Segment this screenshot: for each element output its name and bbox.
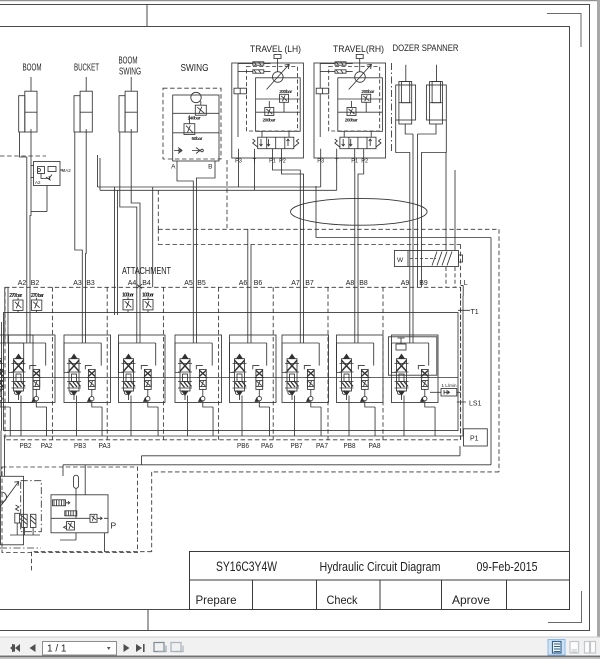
valve section group template (origin = A port x) bbox=[0, 287, 33, 436]
pressure reducer bbox=[90, 514, 102, 522]
svg-text:LS1: LS1 bbox=[469, 401, 482, 408]
svg-text:TRAVEL (LH): TRAVEL (LH) bbox=[250, 44, 301, 55]
compensator section 6 bbox=[253, 366, 270, 436]
pilot bus travel T bbox=[100, 158, 337, 315]
attachment bank labels bbox=[9, 265, 481, 531]
svg-text:BUCKET: BUCKET bbox=[74, 63, 99, 74]
compensator section 2 bbox=[30, 366, 47, 436]
svg-text:P1: P1 bbox=[351, 159, 358, 165]
L port line bbox=[462, 296, 464, 436]
bank left wires to pump bbox=[1, 431, 5, 477]
travel inner valve box bbox=[256, 78, 301, 132]
svg-text:140bar: 140bar bbox=[188, 116, 201, 122]
valve section A3/B3 bbox=[64, 287, 111, 436]
snapshot icon bbox=[154, 643, 166, 652]
compensator section 9 bbox=[418, 366, 435, 436]
page number box bbox=[43, 642, 117, 656]
dozer boundary dash-dot bbox=[391, 63, 393, 152]
pump body box bbox=[1, 476, 24, 545]
svg-text:200bar: 200bar bbox=[279, 89, 292, 95]
valve section A2/B2 bbox=[9, 287, 56, 436]
tank return loop solid bbox=[142, 186, 492, 465]
wire boom A bbox=[20, 132, 27, 287]
svg-text:B9: B9 bbox=[419, 278, 428, 287]
svg-text:L: L bbox=[464, 280, 468, 287]
svg-text:A4: A4 bbox=[128, 278, 137, 287]
pilot relief valve bbox=[64, 522, 75, 531]
compensator section 8 bbox=[358, 366, 375, 436]
bank second bottom line bbox=[4, 435, 464, 437]
nav next icon bbox=[124, 644, 130, 652]
wire bucket B bbox=[85, 129, 88, 287]
travel relief 200bar lower bbox=[265, 108, 274, 116]
svg-text:P2: P2 bbox=[279, 159, 286, 165]
nav first-page icon bbox=[10, 644, 145, 652]
svg-text:A7: A7 bbox=[291, 278, 300, 287]
svg-text:TRAVEL(RH): TRAVEL(RH) bbox=[333, 44, 384, 55]
svg-text:T: T bbox=[335, 159, 339, 165]
svg-text:ATTACHMENT: ATTACHMENT bbox=[122, 265, 171, 277]
copy icon bbox=[171, 643, 183, 652]
pilot manifold box bbox=[51, 495, 108, 533]
svg-text:P2: P2 bbox=[361, 159, 368, 165]
wire boom-swing B bbox=[131, 129, 140, 287]
svg-text:270 bar: 270 bar bbox=[9, 293, 22, 299]
svg-text:B4: B4 bbox=[142, 278, 151, 287]
valve section A8/B8 bbox=[337, 287, 384, 436]
travel inner dashed box bbox=[247, 67, 298, 132]
pilot line dashed to holding valve bbox=[0, 155, 46, 157]
svg-text:SWING: SWING bbox=[119, 67, 141, 78]
bank dashed section dividers bbox=[52, 287, 383, 440]
pilot bus travel P3 bbox=[98, 155, 321, 315]
pilot manifold output line bbox=[51, 495, 108, 519]
svg-text:B7: B7 bbox=[305, 278, 314, 287]
svg-text:P3: P3 bbox=[317, 159, 324, 165]
flow valve 1 L/min bbox=[430, 389, 461, 397]
stubs A6 B6 up bbox=[248, 229, 251, 287]
svg-text:PA7: PA7 bbox=[316, 441, 328, 450]
svg-text:SWING: SWING bbox=[181, 62, 209, 74]
svg-text:200bar: 200bar bbox=[361, 89, 374, 95]
svg-text:A2: A2 bbox=[35, 180, 41, 185]
single page layout icon (active) bbox=[548, 640, 565, 656]
boom holding valve bbox=[31, 162, 64, 212]
title block bbox=[190, 552, 570, 610]
svg-text:A8: A8 bbox=[346, 278, 355, 287]
corner mark bottom-right bbox=[548, 591, 582, 623]
cylinder BOOM bbox=[19, 77, 37, 132]
pump dashed box bbox=[2, 467, 138, 553]
compensator section 5 bbox=[196, 366, 213, 436]
wires dozer/spanner down bbox=[405, 124, 436, 287]
wire boom B bbox=[30, 129, 31, 287]
svg-text:200bar: 200bar bbox=[345, 118, 358, 124]
schematic labels top bbox=[23, 43, 459, 264]
svg-text:PA2: PA2 bbox=[41, 441, 53, 450]
relief pair section A2B2 270bar bbox=[13, 298, 42, 313]
svg-text:PB3: PB3 bbox=[74, 441, 86, 450]
svg-text:A: A bbox=[171, 164, 176, 171]
continuous layout icon (inactive) bbox=[570, 642, 579, 654]
cylinder BUCKET bbox=[74, 77, 92, 132]
valve section A4/B4 bbox=[119, 287, 166, 436]
nav prev icon bbox=[30, 644, 36, 652]
pilot bus riser bbox=[157, 229, 159, 244]
wire swing A bbox=[177, 161, 193, 287]
cylinder SPANNER bbox=[426, 65, 446, 124]
svg-text:Hydraulic Circuit Diagram: Hydraulic Circuit Diagram bbox=[320, 559, 441, 574]
pilot bus dashed upper / system boundary bbox=[158, 229, 499, 472]
svg-text:B: B bbox=[208, 164, 212, 171]
svg-text:BOOM: BOOM bbox=[23, 63, 42, 74]
pilot filter bbox=[53, 500, 70, 506]
svg-text:W: W bbox=[397, 257, 404, 264]
svg-text:Check: Check bbox=[327, 593, 359, 607]
wire travel LH P1 P2 to section7 bbox=[273, 163, 301, 287]
svg-text:A5: A5 bbox=[184, 278, 193, 287]
bank to tank bus bbox=[142, 446, 461, 456]
wire bucket A bbox=[75, 132, 83, 287]
svg-text:1 / 1: 1 / 1 bbox=[47, 644, 67, 655]
bank body rect bbox=[4, 313, 459, 431]
svg-text:PA3: PA3 bbox=[99, 441, 111, 450]
svg-text:DOZER SPANNER: DOZER SPANNER bbox=[393, 43, 459, 54]
svg-text:PA6: PA6 bbox=[261, 441, 273, 450]
svg-text:B5: B5 bbox=[197, 278, 206, 287]
svg-text:SY16C3Y4W: SY16C3Y4W bbox=[216, 559, 277, 574]
pump inner dash-dot box bbox=[21, 481, 42, 532]
svg-text:BOOM: BOOM bbox=[119, 56, 138, 67]
pump top line bbox=[84, 465, 86, 495]
svg-text:P1: P1 bbox=[269, 159, 276, 165]
travel counterbalance valve bbox=[258, 137, 294, 149]
svg-text:PB8: PB8 bbox=[344, 441, 356, 450]
svg-text:PB7: PB7 bbox=[291, 441, 303, 450]
svg-text:100bar: 100bar bbox=[122, 293, 134, 299]
section inner rect bbox=[0, 335, 33, 403]
svg-text:B6: B6 bbox=[254, 278, 263, 287]
svg-text:A9: A9 bbox=[401, 278, 410, 287]
svg-text:B8: B8 bbox=[359, 278, 368, 287]
oil cooler bbox=[394, 251, 462, 267]
svg-text:P: P bbox=[111, 521, 117, 531]
svg-text:MA2: MA2 bbox=[62, 168, 72, 173]
svg-text:PB6: PB6 bbox=[237, 441, 249, 450]
cylinder DOZER bbox=[396, 65, 416, 124]
svg-text:100bar: 100bar bbox=[142, 293, 154, 299]
svg-text:Prepare: Prepare bbox=[196, 593, 237, 607]
pilot bus dashed lower bbox=[158, 245, 460, 441]
swing check valves bbox=[174, 148, 200, 154]
svg-text:A3: A3 bbox=[73, 278, 82, 287]
wire travel RH P1 P2 to section8 bbox=[354, 163, 356, 287]
compensator section 4 bbox=[141, 366, 158, 436]
accumulator bbox=[74, 475, 79, 495]
svg-text:1 L/min: 1 L/min bbox=[442, 383, 457, 388]
pilot pump symbol bbox=[65, 511, 77, 516]
P1 port box bbox=[464, 429, 488, 446]
svg-text:200bar: 200bar bbox=[263, 118, 276, 124]
svg-text:B2: B2 bbox=[31, 278, 40, 287]
big dashed pilot rect bbox=[32, 472, 500, 572]
toolbar bbox=[0, 637, 600, 659]
bottom band divider bbox=[147, 610, 149, 631]
travel shuttle valve bbox=[234, 88, 247, 94]
travel port stubs bbox=[238, 149, 240, 163]
wire boom-swing A bbox=[120, 132, 137, 287]
nav last icon bbox=[136, 644, 142, 652]
travel drain fitting bbox=[274, 55, 281, 59]
svg-text:T1: T1 bbox=[471, 309, 479, 316]
svg-text:A2: A2 bbox=[18, 278, 27, 287]
compensator section 3 bbox=[85, 366, 102, 436]
pilot dashed from swing to bus bbox=[226, 160, 228, 228]
svg-text:270 bar: 270 bar bbox=[31, 293, 44, 299]
travel couplings bbox=[253, 62, 264, 65]
travel RH block bbox=[314, 55, 386, 164]
plug mark A4B4 bbox=[137, 284, 143, 288]
svg-text:T: T bbox=[253, 159, 257, 165]
rotary joint ellipse bbox=[291, 198, 428, 225]
swing relief 50bar bbox=[184, 124, 195, 135]
right port ticks L T1 LS1 bbox=[457, 285, 470, 402]
window top edge bbox=[0, 0, 600, 1]
wire swing B bbox=[197, 161, 216, 287]
pilot dashed riser to bus bbox=[157, 190, 159, 229]
travel outer box bbox=[232, 63, 304, 158]
viewer right strip bbox=[597, 0, 600, 659]
valve section A6/B6 bbox=[230, 287, 277, 436]
section9 pilot cap bbox=[388, 337, 436, 375]
pump circle bbox=[0, 492, 7, 502]
swing motor bbox=[191, 92, 201, 102]
svg-text:50bar: 50bar bbox=[192, 136, 203, 142]
relief pair section A4B4 100bar bbox=[123, 297, 153, 312]
main spool bbox=[0, 354, 4, 400]
travel relief 200bar upper bbox=[280, 94, 289, 102]
swing relief 140bar bbox=[195, 105, 206, 115]
valve section A9/B9 bbox=[392, 287, 439, 436]
bank left inner edge bbox=[1, 322, 3, 431]
valve section A7/B7 bbox=[282, 287, 329, 436]
svg-text:B3: B3 bbox=[86, 278, 95, 287]
pump regulator valves bbox=[10, 505, 40, 535]
cylinder BOOM SWING bbox=[119, 77, 137, 132]
svg-text:PB2: PB2 bbox=[20, 441, 32, 450]
svg-text:P1: P1 bbox=[470, 436, 479, 443]
pump drain stub bbox=[104, 533, 106, 552]
corner mark top-right bbox=[547, 14, 581, 48]
svg-text:P3: P3 bbox=[235, 159, 242, 165]
svg-text:PA8: PA8 bbox=[369, 441, 381, 450]
bank dashed boundary bbox=[5, 287, 461, 440]
compensator spool template (origin = spool centre x) bbox=[0, 366, 10, 436]
bank LS line bbox=[4, 377, 459, 379]
svg-text:09-Feb-2015: 09-Feb-2015 bbox=[477, 559, 538, 574]
compensator section 7 bbox=[304, 366, 321, 436]
travel LH block bbox=[232, 55, 304, 164]
valve section A5/B5 bbox=[175, 287, 222, 436]
top band divider bbox=[146, 5, 148, 27]
svg-text:Aprove: Aprove bbox=[452, 593, 490, 607]
pump dash-dot base bbox=[0, 547, 41, 549]
two-page layout icon (inactive) bbox=[585, 642, 596, 654]
svg-text:A6: A6 bbox=[239, 278, 248, 287]
wires spanner to cooler bbox=[446, 153, 455, 251]
section top loop bbox=[0, 287, 24, 372]
travel motor bbox=[273, 72, 284, 83]
swing motor block bbox=[163, 88, 221, 161]
